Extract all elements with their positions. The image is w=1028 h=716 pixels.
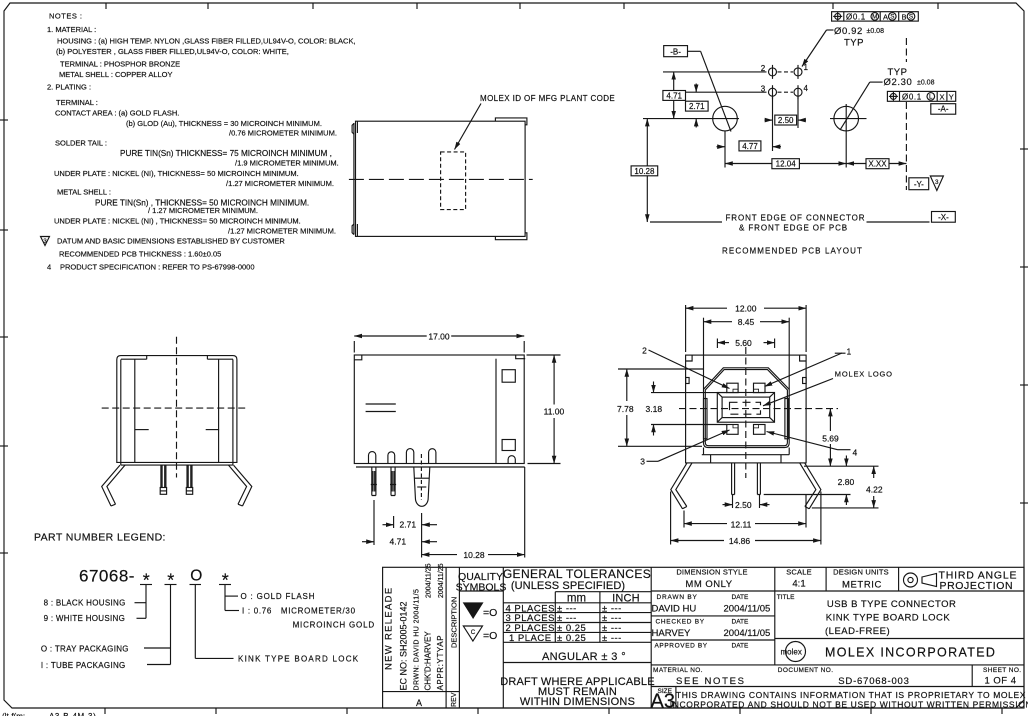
svg-text:PART NUMBER LEGEND:: PART NUMBER LEGEND: <box>34 532 166 544</box>
svg-text:/1.27 MICROMETER MINIMUM.: /1.27 MICROMETER MINIMUM. <box>226 179 334 188</box>
svg-text:MOLEX LOGO: MOLEX LOGO <box>835 370 893 379</box>
svg-text:HARVEY: HARVEY <box>652 628 692 639</box>
svg-text:M: M <box>872 14 877 21</box>
svg-text:7.78: 7.78 <box>617 404 634 414</box>
svg-text:molex: molex <box>781 648 802 657</box>
svg-text:PURE TIN(Sn) THICKNESS= 75 MIC: PURE TIN(Sn) THICKNESS= 75 MICROINCH MIN… <box>120 149 332 158</box>
svg-text:3: 3 <box>761 84 766 93</box>
svg-text:REV: REV <box>451 692 458 707</box>
svg-text:2004/11/05: 2004/11/05 <box>724 604 771 615</box>
svg-text:(lt-f(m:: (lt-f(m: <box>2 712 25 716</box>
svg-text:CHK'D:HARVEY: CHK'D:HARVEY <box>424 631 433 691</box>
svg-text:2. PLATING :: 2. PLATING : <box>47 83 91 92</box>
svg-text:SEE NOTES: SEE NOTES <box>676 676 746 687</box>
svg-text:MOLEX INCORPORATED: MOLEX INCORPORATED <box>825 646 996 660</box>
svg-text:METRIC: METRIC <box>842 580 882 591</box>
svg-text:2: 2 <box>642 346 647 356</box>
svg-text:MATERIAL NO.: MATERIAL NO. <box>653 667 703 674</box>
svg-text:SD-67068-003: SD-67068-003 <box>838 676 909 687</box>
svg-text:DATUM AND BASIC DIMENSIONS EST: DATUM AND BASIC DIMENSIONS ESTABLISHED B… <box>57 237 285 246</box>
svg-text:/1.27 MICROMETER MINIMUM.: /1.27 MICROMETER MINIMUM. <box>228 227 336 236</box>
svg-text:Ø0.1: Ø0.1 <box>902 92 922 101</box>
svg-text:PROJECTION: PROJECTION <box>940 580 1014 592</box>
svg-text:(b) POLYESTER , GLASS FIBER FI: (b) POLYESTER , GLASS FIBER FILLED,UL94V… <box>56 47 289 56</box>
svg-text:2.71: 2.71 <box>400 520 417 530</box>
svg-text:17.00: 17.00 <box>428 331 450 341</box>
svg-text:/ 1.27 MICROMETER MINIMUM.: / 1.27 MICROMETER MINIMUM. <box>148 206 258 215</box>
svg-text:TITLE: TITLE <box>777 594 795 601</box>
svg-text:4: 4 <box>804 84 809 93</box>
svg-text:4.71: 4.71 <box>390 537 407 547</box>
svg-text:8 : BLACK HOUSING: 8 : BLACK HOUSING <box>44 599 126 608</box>
svg-text:WITHIN DIMENSIONS: WITHIN DIMENSIONS <box>520 696 635 708</box>
svg-text:HOUSING : (a) HIGH TEMP. NYLON: HOUSING : (a) HIGH TEMP. NYLON ,GLASS FI… <box>57 37 356 46</box>
svg-text:-B-: -B- <box>670 48 681 57</box>
svg-text:UNDER PLATE : NICKEL (NI), THI: UNDER PLATE : NICKEL (NI), THICKNESS= 50… <box>54 169 299 178</box>
svg-text:KINK TYPE BOARD LOCK: KINK TYPE BOARD LOCK <box>238 655 359 664</box>
svg-text:=O: =O <box>483 630 497 642</box>
svg-text:A: A <box>883 12 888 21</box>
svg-text:SOLDER TAIL :: SOLDER TAIL : <box>55 139 107 148</box>
svg-text:S: S <box>909 14 913 21</box>
svg-text:SHEET NO.: SHEET NO. <box>983 667 1022 674</box>
svg-text:-Y-: -Y- <box>914 180 924 189</box>
svg-text:DOCUMENT NO.: DOCUMENT NO. <box>778 667 834 674</box>
svg-text:14.86: 14.86 <box>729 536 751 546</box>
svg-text:2004/11/05: 2004/11/05 <box>724 628 771 639</box>
svg-text:FRONT EDGE OF CONNECTOR: FRONT EDGE OF CONNECTOR <box>726 214 866 223</box>
svg-text:±0.08: ±0.08 <box>867 28 885 35</box>
svg-text:DATE: DATE <box>732 594 750 601</box>
svg-text:3: 3 <box>640 457 645 467</box>
svg-text:2004/11/25: 2004/11/25 <box>426 563 433 598</box>
svg-text:NOTES :: NOTES : <box>49 12 83 21</box>
svg-text:2: 2 <box>761 64 766 73</box>
svg-text:± 0.25: ± 0.25 <box>557 633 586 644</box>
svg-text:5.60: 5.60 <box>735 338 752 348</box>
svg-text:2004/11/25: 2004/11/25 <box>438 563 445 598</box>
svg-text:4.22: 4.22 <box>866 485 883 495</box>
svg-text:NEW RELEADE: NEW RELEADE <box>384 587 395 670</box>
svg-text:I : TUBE PACKAGING: I : TUBE PACKAGING <box>41 661 126 670</box>
svg-text:DRWN: DAVID HU 2004/11/5: DRWN: DAVID HU 2004/11/5 <box>414 589 421 691</box>
svg-text:O: O <box>190 568 202 585</box>
svg-text:±0.08: ±0.08 <box>917 80 935 87</box>
svg-text:4:1: 4:1 <box>792 579 805 590</box>
svg-text:X.XX: X.XX <box>868 160 887 169</box>
svg-text:SCALE: SCALE <box>786 568 812 577</box>
svg-text:USB B TYPE CONNECTOR: USB B TYPE CONNECTOR <box>827 599 956 610</box>
svg-text:PRODUCT SPECIFICATION : REFER: PRODUCT SPECIFICATION : REFER TO PS-6799… <box>60 263 255 272</box>
svg-text:CONTACT AREA : (a) GOLD FLASH.: CONTACT AREA : (a) GOLD FLASH. <box>55 109 179 118</box>
svg-text:(b) GLOD (Au), THICKNESS = 30: (b) GLOD (Au), THICKNESS = 30 MICROINCH … <box>126 119 322 128</box>
svg-text:TERMINAL : PHOSPHOR BRONZE: TERMINAL : PHOSPHOR BRONZE <box>60 60 180 69</box>
svg-text:-X-: -X- <box>938 213 949 222</box>
svg-text:(LEAD-FREE): (LEAD-FREE) <box>825 626 890 637</box>
svg-text:Ø0.92: Ø0.92 <box>834 26 863 37</box>
svg-text:=O: =O <box>483 607 497 619</box>
svg-text:/0.76 MICROMETER MINIMUM.: /0.76 MICROMETER MINIMUM. <box>229 129 337 138</box>
svg-text:1. MATERIAL :: 1. MATERIAL : <box>47 25 96 34</box>
svg-text:X: X <box>939 92 944 101</box>
svg-text:1 PLACE: 1 PLACE <box>509 633 552 644</box>
svg-text:KINK TYPE BOARD LOCK: KINK TYPE BOARD LOCK <box>826 613 951 624</box>
svg-text:I : 0.76 MICROMETER/30: I : 0.76 MICROMETER/30 <box>242 607 356 616</box>
svg-text:4: 4 <box>853 448 858 458</box>
svg-text:1 OF 4: 1 OF 4 <box>985 676 1017 687</box>
svg-text:12.04: 12.04 <box>776 160 797 169</box>
svg-text:Ø2.30: Ø2.30 <box>884 77 913 88</box>
svg-text:MICROINCH GOLD: MICROINCH GOLD <box>293 621 375 630</box>
svg-text:Ø0.1: Ø0.1 <box>846 12 866 21</box>
svg-text:METAL SHELL : COPPER ALLOY: METAL SHELL : COPPER ALLOY <box>59 70 173 79</box>
svg-text:DIMENSION STYLE: DIMENSION STYLE <box>676 568 747 577</box>
svg-text:2.50: 2.50 <box>778 116 794 125</box>
svg-text:MM ONLY: MM ONLY <box>685 579 732 590</box>
svg-text:TERMINAL :: TERMINAL : <box>56 98 98 107</box>
svg-text:12.00: 12.00 <box>735 304 757 314</box>
svg-text:2.50: 2.50 <box>735 500 752 510</box>
svg-text:CHECKED BY: CHECKED BY <box>656 618 705 625</box>
svg-text:10.28: 10.28 <box>634 167 655 176</box>
svg-text:THIS DRAWING CONTAINS INFORMAT: THIS DRAWING CONTAINS INFORMATION THAT I… <box>676 690 1026 700</box>
svg-text:RECOMMENDED PCB THICKNESS : 1.: RECOMMENDED PCB THICKNESS : 1.60±0.05 <box>59 250 221 259</box>
svg-text:METAL SHELL :: METAL SHELL : <box>57 188 111 197</box>
svg-text:APPROVED BY: APPROVED BY <box>655 642 708 649</box>
svg-text:4.71: 4.71 <box>666 91 682 100</box>
svg-text:10.28: 10.28 <box>463 550 485 560</box>
svg-text:O : TRAY PACKAGING: O : TRAY PACKAGING <box>41 645 129 654</box>
svg-text:EC NO: SH2005-0142: EC NO: SH2005-0142 <box>399 601 409 690</box>
svg-text:2.71: 2.71 <box>689 102 705 111</box>
svg-text:DATE: DATE <box>732 642 750 649</box>
svg-text:3: 3 <box>43 238 47 245</box>
svg-text:S: S <box>890 14 894 21</box>
svg-text:12.11: 12.11 <box>731 519 752 529</box>
svg-text:1: 1 <box>847 347 852 357</box>
svg-text:4.77: 4.77 <box>742 142 758 151</box>
svg-text:& FRONT EDGE OF PCB: & FRONT EDGE OF PCB <box>739 224 848 233</box>
svg-text:SYMBOLS: SYMBOLS <box>456 582 507 594</box>
svg-text:Y: Y <box>949 92 954 101</box>
svg-text:INCORPORATED AND SHOULD NOT BE: INCORPORATED AND SHOULD NOT BE USED WITH… <box>670 700 1028 710</box>
svg-text:1: 1 <box>804 63 809 72</box>
svg-text:B: B <box>902 12 907 21</box>
svg-text:ANGULAR ± 3 °: ANGULAR ± 3 ° <box>542 651 626 663</box>
svg-text:3: 3 <box>935 179 939 186</box>
svg-text:O : GOLD FLASH: O : GOLD FLASH <box>241 592 316 601</box>
svg-text:DAVID HU: DAVID HU <box>652 604 697 615</box>
svg-text:RECOMMENDED PCB LAYOUT: RECOMMENDED PCB LAYOUT <box>722 247 863 256</box>
svg-text:TYP: TYP <box>844 38 864 49</box>
svg-text:± ---: ± --- <box>602 633 622 644</box>
svg-text:DATE: DATE <box>732 618 750 625</box>
svg-text:DRAWN BY: DRAWN BY <box>657 594 698 601</box>
svg-text:67068-: 67068- <box>79 567 135 586</box>
svg-text:11.00: 11.00 <box>544 407 565 417</box>
svg-text:8.45: 8.45 <box>738 317 755 327</box>
svg-text:5.69: 5.69 <box>822 434 839 444</box>
svg-text:MOLEX ID OF MFG PLANT CODE: MOLEX ID OF MFG PLANT CODE <box>480 94 615 103</box>
svg-text:9 : WHITE HOUSING: 9 : WHITE HOUSING <box>44 614 126 623</box>
svg-text:(UNLESS SPECIFIED): (UNLESS SPECIFIED) <box>511 580 625 592</box>
svg-text:DESIGN UNITS: DESIGN UNITS <box>833 568 889 577</box>
svg-text:2.80: 2.80 <box>838 477 855 487</box>
svg-text:A3-B-4M-3): A3-B-4M-3) <box>49 712 96 716</box>
svg-text:L: L <box>929 94 933 101</box>
svg-text:/1.9 MICROMETER MINIMUM.: /1.9 MICROMETER MINIMUM. <box>235 159 339 168</box>
svg-text:GENERAL TOLERANCES: GENERAL TOLERANCES <box>503 567 651 581</box>
svg-text:C: C <box>471 629 476 636</box>
svg-text:A: A <box>416 698 422 708</box>
svg-text:3.18: 3.18 <box>646 404 663 414</box>
svg-text:-A-: -A- <box>938 105 949 114</box>
svg-text:APPR:YTYAP: APPR:YTYAP <box>436 635 445 691</box>
svg-text:DESCRIPTION: DESCRIPTION <box>450 597 459 648</box>
svg-text:UNDER PLATE : NICKEL (NI) , TH: UNDER PLATE : NICKEL (NI) , THICKNESS= 5… <box>54 217 301 226</box>
svg-text:4: 4 <box>47 263 51 272</box>
